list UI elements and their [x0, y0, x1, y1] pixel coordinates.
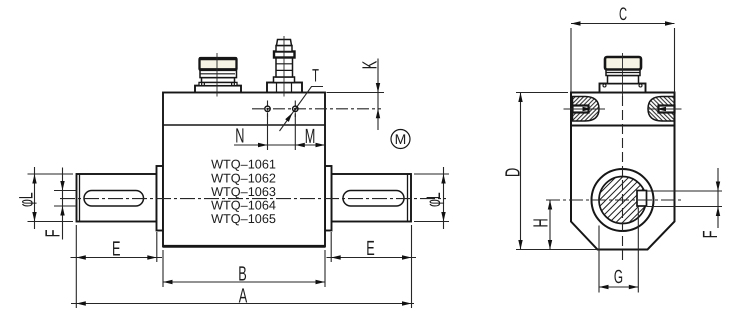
svg-text:φL: φL — [16, 192, 38, 207]
svg-text:M: M — [395, 131, 407, 147]
svg-text:C: C — [619, 4, 627, 24]
svg-text:E: E — [366, 237, 374, 260]
svg-text:N: N — [235, 125, 244, 148]
svg-text:G: G — [614, 267, 623, 288]
svg-text:F: F — [42, 230, 65, 238]
svg-text:WTQ–1065: WTQ–1065 — [211, 212, 276, 226]
svg-text:φL: φL — [423, 192, 445, 207]
svg-text:WTQ–1062: WTQ–1062 — [211, 171, 276, 185]
svg-text:E: E — [112, 237, 120, 260]
svg-text:WTQ–1064: WTQ–1064 — [211, 199, 276, 213]
svg-text:M: M — [305, 125, 316, 148]
svg-text:WTQ–1063: WTQ–1063 — [211, 185, 276, 199]
svg-text:D: D — [502, 168, 525, 177]
svg-text:B: B — [238, 263, 246, 286]
svg-text:T: T — [312, 66, 319, 86]
svg-text:WTQ–1061: WTQ–1061 — [211, 158, 276, 172]
svg-text:H: H — [530, 218, 553, 227]
svg-text:F: F — [699, 231, 722, 239]
svg-text:A: A — [239, 285, 248, 308]
svg-text:K: K — [359, 61, 382, 70]
